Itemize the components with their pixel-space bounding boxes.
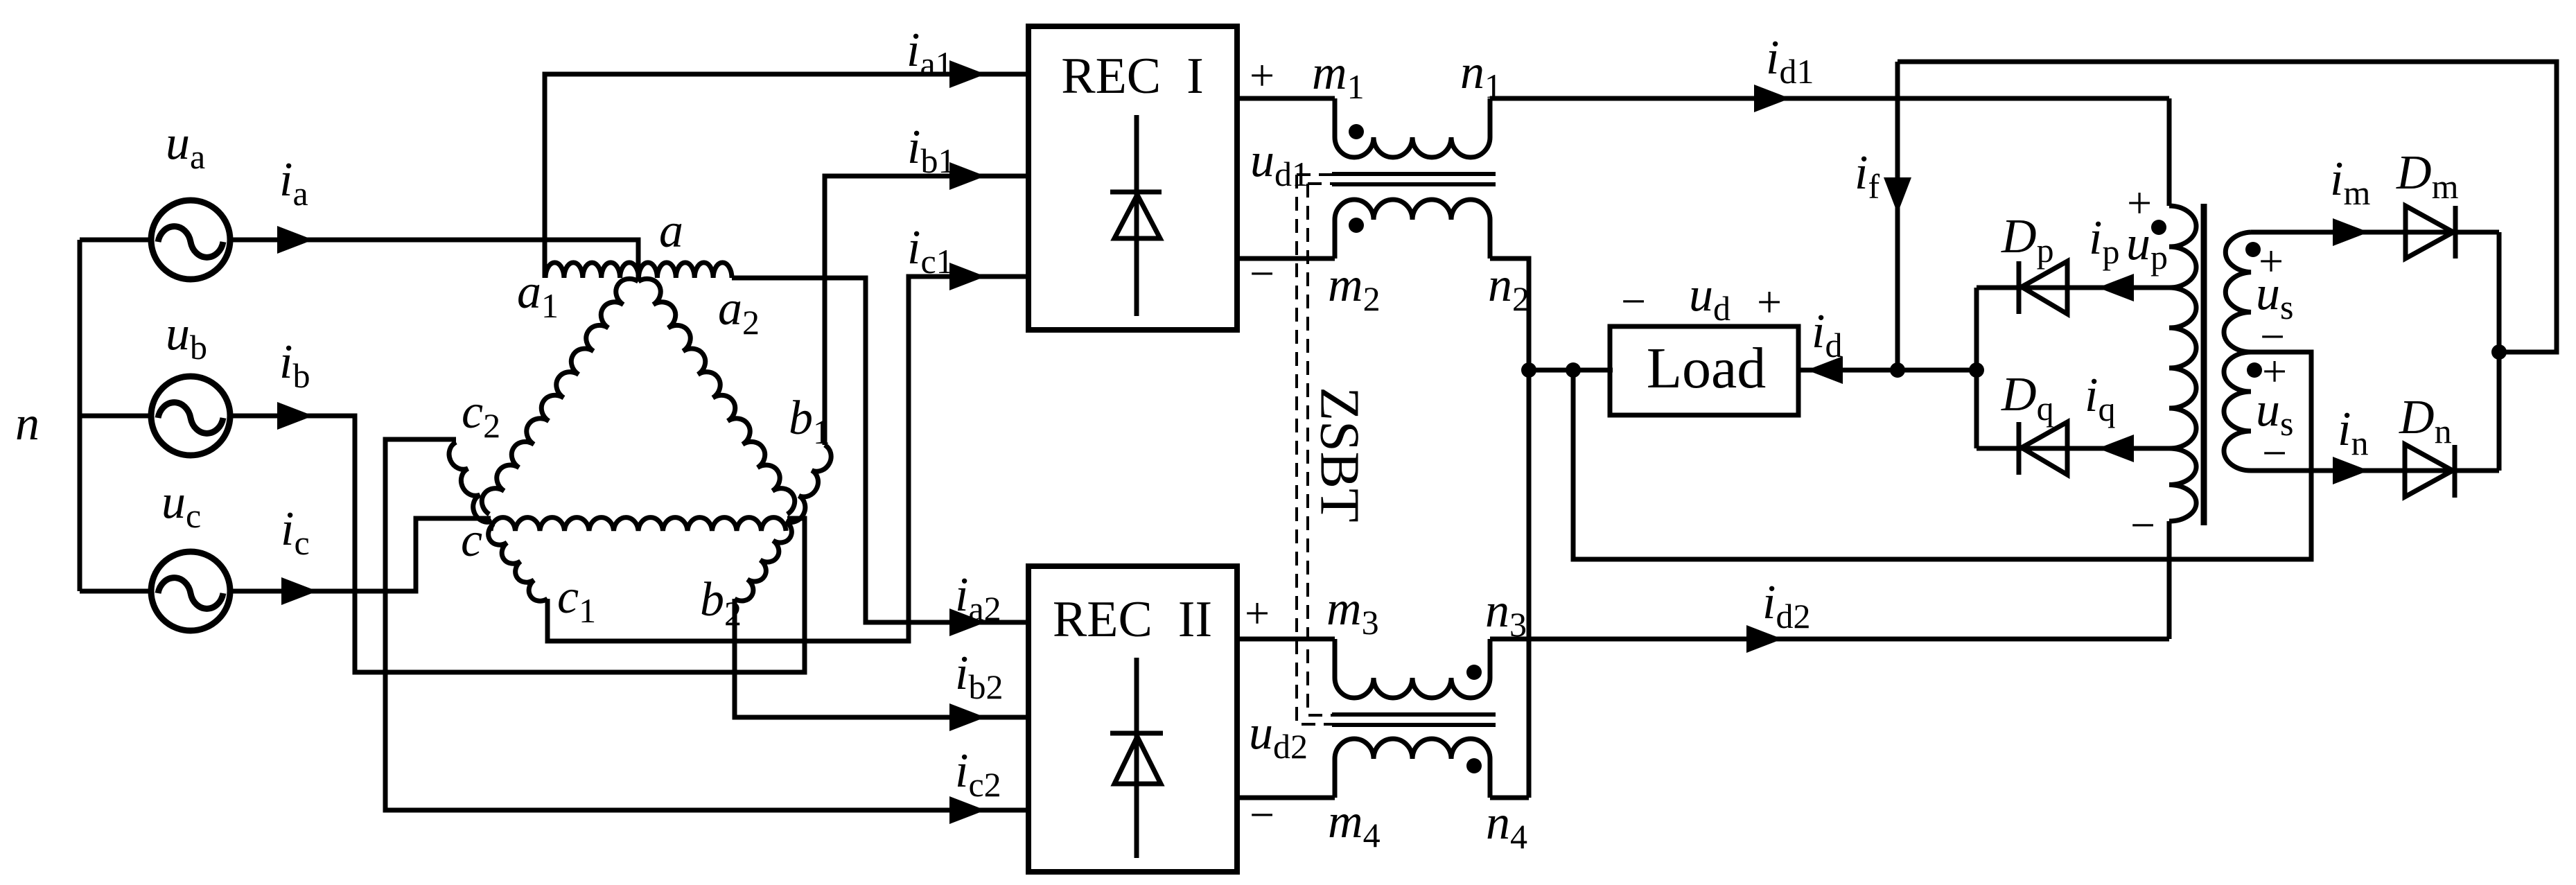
svg-text:ip: ip <box>2089 211 2119 271</box>
winding delta bottom <box>491 518 786 531</box>
arrow id <box>1807 356 1843 384</box>
svg-text:ib1: ib1 <box>907 121 955 180</box>
svg-text:id2: id2 <box>1762 576 1810 636</box>
winding secondary lower <box>2224 352 2251 471</box>
svg-text:m2: m2 <box>1328 259 1381 318</box>
svg-text:ic1: ic1 <box>907 221 954 281</box>
svg-text:+: + <box>1245 588 1270 638</box>
arrow ia1 <box>949 60 985 88</box>
arrow ib1 <box>949 162 985 190</box>
ZSBT core top <box>1332 174 1496 184</box>
svg-text:−: − <box>1250 249 1274 298</box>
svg-text:ia2: ia2 <box>955 568 1001 628</box>
load box <box>1610 326 1798 415</box>
winding a1-a-a2 top <box>545 263 732 278</box>
svg-text:ud: ud <box>1689 268 1731 328</box>
svg-text:c2: c2 <box>462 385 500 445</box>
arrow id1 <box>1754 85 1790 112</box>
svg-text:ua: ua <box>166 116 205 176</box>
arrow ia <box>277 226 313 254</box>
svg-text:REC II: REC II <box>1053 591 1212 648</box>
ZSBT core bottom <box>1332 715 1496 725</box>
svg-text:iq: iq <box>2085 369 2115 428</box>
source ub <box>151 376 230 455</box>
wire n to source ub <box>80 414 150 419</box>
svg-text:id: id <box>1812 305 1842 365</box>
arrow in <box>2333 457 2369 484</box>
svg-text:uc: uc <box>161 475 201 535</box>
wire n1 to right (id1) <box>1490 96 2169 101</box>
wire tap to load <box>1529 368 1613 373</box>
svg-text:ud1: ud1 <box>1250 134 1309 193</box>
svg-text:Dp: Dp <box>2001 210 2054 270</box>
svg-text:ZSBT: ZSBT <box>1309 387 1370 523</box>
winding m3-n3 <box>1335 639 1490 698</box>
wire c1 to REC I <box>547 277 1028 641</box>
wire in <box>2251 468 2499 473</box>
svg-text:n4: n4 <box>1486 796 1527 856</box>
junction dot freewheel tap <box>1566 362 1581 378</box>
rectifier REC II box <box>1028 566 1237 872</box>
wire b1 to REC I <box>825 176 1028 445</box>
diode Dq <box>2022 422 2067 475</box>
svg-text:ud2: ud2 <box>1249 706 1308 766</box>
svg-text:ic2: ic2 <box>955 744 1001 804</box>
wire feedback top <box>1898 62 2557 352</box>
winding m2-n2 <box>1335 200 1490 259</box>
wire id1 to primary top <box>2167 98 2172 206</box>
arrow ib <box>277 402 313 430</box>
source ua <box>151 200 230 279</box>
svg-text:m4: m4 <box>1328 795 1381 855</box>
svg-text:if: if <box>1855 146 1880 206</box>
wire branch vertical <box>1974 288 1979 448</box>
diode Dp <box>2022 261 2067 314</box>
svg-text:Dm: Dm <box>2396 146 2459 206</box>
wire neutral bus <box>78 240 82 591</box>
svg-text:m1: m1 <box>1312 46 1365 106</box>
winding c2 extension <box>449 442 492 522</box>
transformer core <box>2201 204 2207 525</box>
arrow iq <box>2098 435 2134 462</box>
wire REC II plus to m3 <box>1237 637 1335 642</box>
svg-text:c1: c1 <box>557 570 596 630</box>
wire a2 to REC II <box>732 278 1028 622</box>
svg-text:−: − <box>2130 500 2155 550</box>
arrow ic <box>281 577 317 605</box>
svg-text:id1: id1 <box>1766 31 1814 91</box>
svg-text:a1: a1 <box>517 265 559 325</box>
wire n2 down to n4 <box>1490 259 1529 798</box>
svg-text:−: − <box>1250 790 1274 839</box>
svg-text:a: a <box>659 204 683 258</box>
source uc <box>151 552 230 631</box>
junction dot Dm Dn <box>2491 344 2507 360</box>
wire REC II minus to m4 <box>1237 796 1335 800</box>
svg-text:−: − <box>1621 277 1646 326</box>
dot n3 polarity <box>1466 665 1482 680</box>
dot us upper polarity <box>2245 242 2261 257</box>
dot n4 polarity <box>1466 758 1482 773</box>
svg-text:n: n <box>15 397 40 450</box>
svg-text:ic: ic <box>281 502 310 562</box>
winding c1 extension <box>489 524 547 601</box>
wire load to diode branch <box>1798 368 1977 373</box>
winding delta right side <box>638 279 795 514</box>
arrow ic2 <box>949 796 985 824</box>
svg-text:n3: n3 <box>1485 584 1527 644</box>
winding m1-n1 <box>1335 98 1490 157</box>
svg-text:m3: m3 <box>1326 582 1379 642</box>
svg-text:+: + <box>1250 51 1274 100</box>
dot us lower polarity <box>2247 362 2262 378</box>
svg-text:Dn: Dn <box>2399 391 2452 450</box>
wire freewheel down-right rail <box>1573 352 2311 559</box>
svg-text:ib2: ib2 <box>955 647 1003 706</box>
dot up polarity <box>2151 220 2166 235</box>
wire Dm Dn join <box>2497 232 2502 471</box>
junction dot n2-n4 tap <box>1521 362 1536 378</box>
svg-text:c: c <box>461 514 482 567</box>
wire REC I plus to m1 <box>1237 96 1335 101</box>
arrow ic1 <box>949 263 985 290</box>
dot m1 polarity <box>1349 124 1364 139</box>
svg-text:Dq: Dq <box>2001 368 2054 428</box>
wire ia from source to node a <box>231 240 638 281</box>
wire a1 to REC I <box>545 74 1028 278</box>
junction dot if <box>1890 362 1905 378</box>
svg-text:ub: ub <box>166 307 207 367</box>
svg-text:REC I: REC I <box>1061 48 1204 105</box>
arrow ip <box>2098 274 2134 301</box>
dot m2 polarity <box>1349 218 1364 233</box>
dashed ZSBT group outline <box>1297 175 1332 724</box>
winding secondary upper <box>2224 232 2251 352</box>
svg-text:+: + <box>1757 277 1782 326</box>
wire Dq branch <box>1977 446 2169 451</box>
svg-text:in: in <box>2338 403 2368 462</box>
arrow im <box>2333 218 2369 246</box>
wire Dp branch <box>1977 286 2169 290</box>
wire n3 to right (id2) <box>1490 637 2169 642</box>
wire ic from source to node c <box>231 518 491 591</box>
diode Dn <box>2405 444 2453 497</box>
arrow id2 <box>1746 625 1782 653</box>
svg-text:ib: ib <box>279 335 310 395</box>
svg-text:n2: n2 <box>1488 259 1530 318</box>
arrow if <box>1884 177 1911 213</box>
winding delta left side <box>482 279 638 514</box>
svg-text:ia: ia <box>279 153 308 213</box>
diode Dm <box>2406 206 2453 259</box>
arrow ia2 <box>949 608 985 636</box>
svg-text:a2: a2 <box>718 282 760 342</box>
arrow ib2 <box>949 703 985 731</box>
wire REC I minus to m2 <box>1237 256 1335 261</box>
svg-text:im: im <box>2330 152 2370 212</box>
svg-text:ia1: ia1 <box>906 24 953 83</box>
wire b2 to REC II <box>735 599 1028 717</box>
wire im <box>2251 230 2499 235</box>
winding m4-n4 <box>1335 739 1490 798</box>
wire n to source uc <box>80 589 150 594</box>
rectifier REC I box <box>1028 26 1237 330</box>
winding b2 extension <box>735 521 791 601</box>
diode symbol in REC II <box>1134 658 1139 858</box>
wire m4 to n2 riser <box>1490 796 1529 800</box>
svg-text:Load: Load <box>1647 336 1767 401</box>
wire ib from source to node b <box>231 416 805 672</box>
wire primary bottom to id2 <box>2167 521 2172 639</box>
winding primary <box>2169 206 2196 521</box>
wire c2 to REC II <box>385 439 1028 810</box>
diode symbol in REC I <box>1134 115 1139 316</box>
wire n to source ua <box>80 238 150 243</box>
junction dot dp dq branch <box>1969 362 1984 378</box>
winding b1 extension <box>786 445 831 523</box>
wire if vertical <box>1895 62 1900 370</box>
